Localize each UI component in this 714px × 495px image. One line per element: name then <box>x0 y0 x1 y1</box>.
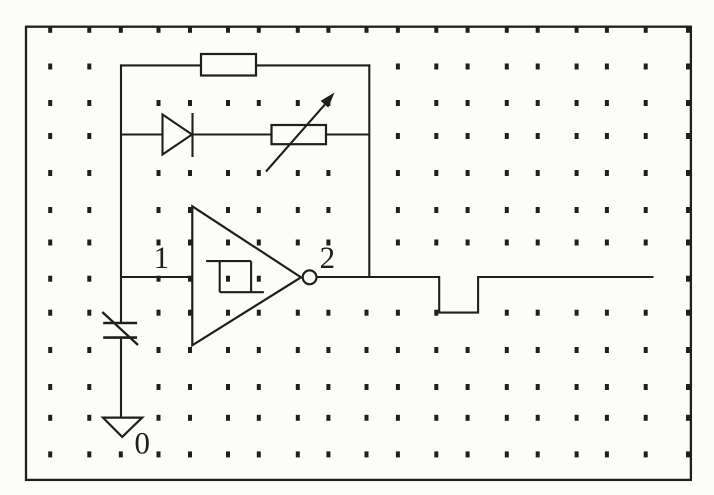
wire input node 1 <box>120 276 192 278</box>
wire left vertical (node 1 net) <box>120 64 122 322</box>
wire top branch left <box>120 64 201 66</box>
wire output node 2 with pulse notch <box>317 277 654 313</box>
resistor R1 <box>201 54 256 76</box>
hysteresis symbol <box>206 261 264 292</box>
wire right vertical feedback <box>368 64 370 277</box>
output bubble pin 2 <box>303 270 317 284</box>
wire rheostat to right vertical <box>326 133 369 135</box>
node label 2 <box>321 247 333 268</box>
diode VD1 <box>163 113 193 157</box>
capacitor C1 <box>102 312 138 345</box>
op-amp U1 schmitt trigger triangle <box>192 206 301 345</box>
variable resistor R2 <box>266 93 335 172</box>
node label 1 <box>156 248 167 268</box>
wire capacitor to ground <box>120 338 122 418</box>
wire top branch right <box>256 64 370 66</box>
ground symbol <box>103 418 142 437</box>
node label 0 <box>136 433 149 454</box>
wire diode branch left <box>120 133 163 135</box>
wire diode to rheostat <box>193 133 272 135</box>
